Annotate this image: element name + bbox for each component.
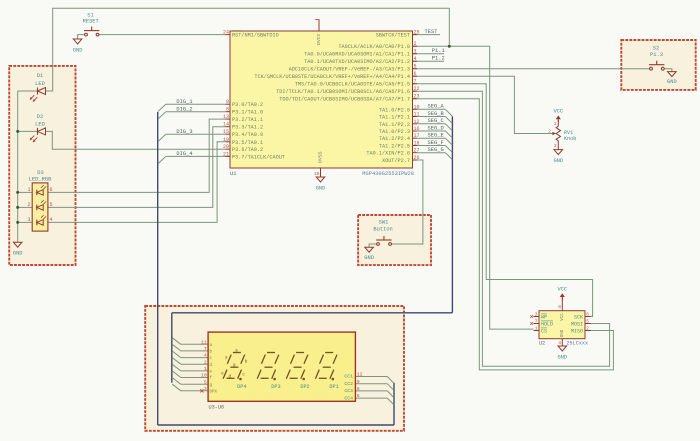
digit DP4: [223, 353, 246, 390]
svg-text:VCC: VCC: [557, 287, 567, 293]
bus display bottom: [158, 424, 394, 426]
pin 6 TCK/SMCLK/UCB0STE/UCA0CLK/VREF+/VeREF+/A4/CA4/P1.4: [254, 71, 417, 80]
pin 4 c display: [204, 353, 213, 362]
svg-text:P3.2/TA1.1: P3.2/TA1.1: [232, 117, 263, 123]
pin 9 CC2 display: [344, 379, 359, 387]
led D3 LED_RGB: [27, 170, 52, 231]
wire RGB pin2: [18, 206, 33, 208]
LED module box: [9, 66, 75, 265]
pin 26 XOUT/P2.7: [382, 155, 420, 164]
svg-text:VCC: VCC: [553, 108, 563, 114]
svg-text:P3.3/TA1.2: P3.3/TA1.2: [232, 125, 263, 131]
svg-text:6: 6: [586, 312, 589, 318]
digit DP1: [315, 353, 338, 390]
svg-text:9: 9: [226, 99, 229, 105]
svg-text:1: 1: [535, 326, 538, 332]
svg-text:SEG_A: SEG_A: [428, 104, 445, 110]
label 25LCxxx: [566, 341, 588, 347]
svg-text:MISO: MISO: [571, 328, 583, 334]
junction rail: [16, 191, 19, 194]
svg-text:25LCxxx: 25LCxxx: [566, 341, 588, 347]
svg-text:TMS/TA0.0/UCB0CLK/UCA0STE/A5/C: TMS/TA0.0/UCB0CLK/UCA0STE/A5/CA5/P1.5: [295, 82, 410, 88]
svg-text:28: 28: [314, 171, 320, 177]
wire D2 anode to pin20: [46, 131, 226, 149]
svg-text:9: 9: [357, 379, 360, 385]
pin 20 P3.6/TA0.2: [223, 144, 263, 153]
svg-text:DP2: DP2: [300, 384, 309, 390]
svg-text:TEST: TEST: [425, 29, 439, 35]
svg-text:SEG_C: SEG_C: [428, 118, 444, 124]
svg-text:LED_RGB: LED_RGB: [29, 176, 52, 182]
net SEG_G: [417, 147, 452, 159]
svg-text:S1: S1: [87, 13, 93, 19]
pin 16 TA1.0/P2.3: [379, 126, 420, 135]
wire rail LED module: [17, 91, 19, 242]
svg-text:TA1.1/P2.1: TA1.1/P2.1: [379, 115, 410, 121]
junction P1.0: [448, 45, 451, 48]
svg-text:TA0CLK/ACLK/A0/CA0/P1.0: TA0CLK/ACLK/A0/CA0/P1.0: [338, 44, 410, 50]
wire D2 cathode: [18, 130, 38, 132]
pin 13 P3.2/TA1.1: [223, 114, 263, 123]
svg-text:XOUT/P2.7: XOUT/P2.7: [382, 158, 410, 164]
svg-text:6: 6: [357, 393, 360, 399]
ground RV1: [553, 150, 563, 165]
wire P1.4 to RV1 wiper: [413, 76, 553, 133]
S2 module box: [621, 40, 695, 90]
pin 10 TA1.0/P2.0: [379, 104, 420, 113]
SW1 module box: [358, 215, 431, 265]
wire RGB pin3: [18, 221, 33, 223]
svg-text:CC2: CC2: [344, 381, 353, 387]
svg-text:10: 10: [414, 104, 420, 110]
svg-text:S2: S2: [653, 46, 659, 52]
svg-text:TA1.2/P2.5: TA1.2/P2.5: [379, 144, 410, 150]
svg-text:TA0.0/UCA0RXD/UCA0SOMI/A1/CA1/: TA0.0/UCA0RXD/UCA0SOMI/A1/CA1/P1.1: [304, 52, 410, 58]
svg-text:SW1: SW1: [379, 220, 389, 226]
svg-text:TCK/SMCLK/UCB0STE/UCA0CLK/VREF: TCK/SMCLK/UCB0STE/UCA0CLK/VREF+/VeREF+/A…: [254, 74, 410, 80]
pin 8 CC3 display: [344, 386, 359, 394]
wire P1.0 pin2: [413, 46, 534, 329]
ground SW1: [364, 247, 374, 261]
wire P1.1 label: [413, 53, 445, 55]
digit1 segment letters: [221, 349, 248, 379]
pin 7 HOLD: [530, 319, 553, 328]
svg-text:SBWTCK/TEST: SBWTCK/TEST: [376, 33, 410, 39]
pin 9 P3.0/TA0.2: [226, 99, 264, 108]
wire RGB pin6 to pin13: [48, 119, 226, 192]
pin 12 CC1 display: [344, 372, 362, 380]
svg-text:1: 1: [554, 121, 557, 127]
svg-text:RST/NMI/SBWTDIO: RST/NMI/SBWTDIO: [232, 33, 279, 39]
svg-text:27: 27: [414, 148, 420, 154]
svg-text:DIG_4: DIG_4: [176, 151, 192, 157]
svg-text:3: 3: [204, 386, 207, 392]
pin 25 SBWTCK/TEST: [376, 30, 420, 39]
wire U2 to GND: [561, 339, 563, 346]
svg-text:GND: GND: [316, 186, 326, 192]
wire RGB pin5 to pin14: [48, 127, 226, 208]
svg-text:TA1.1/P2.2: TA1.1/P2.2: [379, 122, 410, 128]
svg-text:CC4: CC4: [344, 395, 353, 401]
svg-text:SEG_D: SEG_D: [428, 125, 444, 131]
pin 15 P3.4/TA0.0: [223, 129, 263, 138]
net DIG_2: [158, 106, 225, 118]
svg-text:10: 10: [201, 373, 207, 379]
svg-text:1: 1: [204, 366, 207, 372]
svg-text:DP3: DP3: [271, 384, 280, 390]
pin DVSS bottom: [314, 151, 323, 177]
svg-text:22: 22: [414, 86, 420, 92]
pin 3 DPX display: [200, 386, 217, 395]
pin 14 P3.3/TA1.2: [223, 122, 263, 131]
svg-text:GND: GND: [364, 255, 374, 261]
pin 23 TDO/TDI/CAOUT/UCB0SIMO/UCB0SDA/A7/CA7/P1.7: [279, 94, 419, 103]
pin 21 P3.7/TA1CLK/CAOUT: [223, 151, 285, 160]
pin 18 TA1.2/P2.5: [379, 141, 420, 150]
switch S2 P1.3: [649, 46, 664, 71]
svg-text:LED: LED: [35, 81, 45, 87]
svg-text:P3.7/TA1CLK/CAOUT: P3.7/TA1CLK/CAOUT: [232, 154, 285, 160]
svg-text:21: 21: [223, 151, 229, 157]
wire S1 to GND: [78, 35, 85, 39]
svg-text:D3: D3: [37, 170, 43, 176]
svg-text:24: 24: [223, 30, 229, 36]
svg-text:TA1.0/P2.0: TA1.0/P2.0: [379, 107, 410, 113]
svg-text:12: 12: [357, 372, 363, 378]
svg-text:2: 2: [27, 202, 30, 208]
svg-text:8: 8: [558, 304, 561, 310]
label U3-U6: [209, 404, 225, 410]
svg-text:GND: GND: [557, 354, 567, 360]
svg-text:11: 11: [201, 339, 207, 345]
pin 6 SCK: [574, 312, 591, 321]
svg-text:6: 6: [414, 71, 417, 77]
svg-text:SEG_B: SEG_B: [428, 111, 445, 117]
digit DP2: [286, 353, 309, 390]
svg-text:1: 1: [27, 187, 30, 193]
svg-text:CC3: CC3: [344, 388, 353, 394]
wire RGB pin4 to pin19: [48, 142, 226, 223]
svg-text:D2: D2: [37, 114, 43, 120]
svg-text:DP4: DP4: [237, 384, 246, 390]
led D1: [30, 73, 46, 101]
svg-text:6: 6: [50, 187, 53, 193]
label MSP430G2553IPW28: [362, 171, 414, 177]
svg-text:5: 5: [586, 319, 589, 325]
junction rail: [16, 130, 19, 133]
wire D1 top loop to P1.0 junction: [46, 8, 450, 91]
svg-text:3: 3: [554, 143, 557, 149]
svg-text:3: 3: [414, 49, 417, 55]
pin 7 TMS/TA0.0/UCB0CLK/UCA0STE/A5/CA5/P1.5: [295, 79, 417, 88]
pin 1 CS: [534, 326, 548, 335]
svg-text:DP1: DP1: [329, 384, 338, 390]
net P1.2: [432, 56, 445, 62]
led D2: [30, 114, 46, 142]
svg-text:4: 4: [204, 353, 207, 359]
pin 6 CC4 display: [344, 393, 359, 401]
svg-text:4: 4: [558, 340, 561, 346]
svg-text:4: 4: [414, 56, 417, 62]
svg-text:P3.1/TA1.0: P3.1/TA1.0: [232, 110, 263, 116]
svg-text:GND: GND: [561, 329, 565, 337]
svg-text:17: 17: [414, 133, 420, 139]
pin 11 TA1.1/P2.1: [379, 112, 420, 121]
svg-text:TA1.0/P2.3: TA1.0/P2.3: [379, 129, 410, 135]
pin 27 TA0.1/XIN/P2.6: [366, 148, 419, 157]
svg-text:P3.4/TA0.0: P3.4/TA0.0: [232, 132, 263, 138]
wire SW1 to GND: [369, 244, 377, 247]
pin 5 ADC10CLK/CAOUT/VREF-/VeREF-/A3/CA3/P1.3: [289, 64, 417, 73]
switch SW1 Button: [373, 220, 392, 246]
bus display right: [393, 383, 395, 425]
svg-text:5: 5: [50, 202, 53, 208]
svg-text:DPX: DPX: [210, 390, 218, 394]
svg-text:DIG_1: DIG_1: [176, 99, 192, 105]
pin 1 e display: [204, 366, 213, 375]
wire display CC bus entries: [355, 377, 393, 405]
mcu U1 MSP430G2553 body: [230, 31, 413, 168]
wire XOUT pin26 to SW1: [392, 160, 423, 244]
svg-text:SEG_G: SEG_G: [428, 147, 444, 153]
svg-text:P1.1: P1.1: [432, 48, 445, 54]
svg-text:U3-U6: U3-U6: [209, 404, 225, 410]
svg-text:7: 7: [414, 79, 417, 85]
bus display top: [172, 312, 453, 314]
display module box: [145, 306, 404, 431]
svg-text:LED: LED: [35, 122, 45, 128]
svg-text:2: 2: [586, 326, 589, 332]
net DIG_3: [158, 129, 225, 141]
wire VCC to U2: [561, 298, 563, 311]
svg-text:16: 16: [414, 126, 420, 132]
svg-text:23: 23: [414, 94, 420, 100]
wire TEST label: [413, 34, 441, 36]
pin 4 GND U2: [558, 340, 561, 346]
svg-text:12: 12: [414, 119, 420, 125]
junction rail: [16, 221, 19, 224]
svg-text:2: 2: [414, 41, 417, 47]
pin 8 VCC U2: [558, 304, 561, 310]
bus SEG vertical: [451, 116, 453, 312]
ground LED module: [13, 242, 23, 257]
ic U2 25LCxxx body: [539, 311, 585, 339]
svg-text:GND: GND: [553, 158, 563, 164]
svg-text:MOSI: MOSI: [571, 321, 583, 327]
ground U1: [316, 177, 326, 192]
svg-text:5: 5: [414, 64, 417, 70]
svg-text:P1.2: P1.2: [432, 56, 445, 62]
svg-text:8: 8: [357, 386, 360, 392]
wire RV1 to GND: [557, 144, 559, 150]
net SEG_E: [417, 133, 452, 145]
svg-text:U1: U1: [230, 171, 236, 177]
wire P1.3 to S2: [413, 68, 650, 70]
svg-text:7: 7: [535, 319, 538, 325]
pin 10 f display: [201, 373, 212, 382]
wire S1 to RST pin24: [99, 34, 226, 36]
svg-text:2: 2: [548, 128, 551, 134]
svg-text:P3.5/TA0.1: P3.5/TA0.1: [232, 140, 263, 146]
svg-text:CC1: CC1: [344, 374, 353, 380]
wire RGB pin1: [18, 191, 33, 193]
wire P1.2 label: [413, 60, 445, 62]
potentiometer RV1: [548, 121, 576, 149]
net P1.1: [432, 48, 445, 54]
svg-text:DVCC: DVCC: [316, 33, 322, 45]
svg-text:SEG_F: SEG_F: [428, 140, 444, 146]
svg-text:7: 7: [204, 346, 207, 352]
svg-text:GND: GND: [667, 79, 677, 85]
pin 17 TA1.2/P2.4: [379, 133, 420, 142]
svg-text:MSP430G2553IPW28: MSP430G2553IPW28: [362, 171, 414, 177]
svg-text:25: 25: [414, 30, 420, 36]
svg-text:TA0.1/XIN/P2.6: TA0.1/XIN/P2.6: [366, 151, 410, 157]
ground S2: [667, 72, 677, 86]
wire S2 to GND: [664, 69, 672, 72]
svg-text:Button: Button: [373, 227, 392, 233]
bus DIG vertical: [157, 112, 159, 425]
pin 19 P3.5/TA0.1: [223, 137, 263, 146]
pin 7 b display: [204, 346, 213, 355]
wire P1.7 to MISO: [413, 99, 614, 370]
pin 24 RST/NMI/SBWTDIO: [223, 30, 279, 39]
net DIG_1: [158, 99, 225, 111]
net SEG_C: [417, 118, 452, 130]
svg-text:14: 14: [223, 122, 229, 128]
svg-text:4: 4: [50, 217, 53, 223]
svg-text:P3.6/TA0.2: P3.6/TA0.2: [232, 147, 263, 153]
net SEG_D: [417, 125, 452, 137]
junction rail: [16, 206, 19, 209]
pin 12 TA1.1/P2.2: [379, 119, 420, 128]
pin 2 TA0CLK/ACLK/A0/CA0/P1.0: [338, 41, 417, 50]
pin 11 a display: [201, 339, 212, 348]
wire VCC to RV1: [557, 120, 559, 126]
ground S1: [73, 39, 83, 54]
digit DP3: [257, 353, 280, 390]
svg-text:CS: CS: [541, 328, 547, 334]
svg-text:GND: GND: [73, 48, 83, 54]
wire display left pins bus entries: [172, 338, 208, 391]
svg-text:ADC10CLK/CAOUT/VREF-/VeREF-/A3: ADC10CLK/CAOUT/VREF-/VeREF-/A3/CA3/P1.3: [289, 67, 410, 73]
net SEG_A: [417, 104, 452, 116]
svg-text:TA0.1/UCA0TXD/UCA0SIMO/A2/CA2/: TA0.1/UCA0TXD/UCA0SIMO/A2/CA2/P1.2: [304, 59, 410, 65]
svg-text:TA1.2/P2.4: TA1.2/P2.4: [379, 136, 410, 142]
power VCC RV1: [553, 108, 563, 122]
wire P1.6 to MOSI: [413, 91, 610, 366]
svg-text:2: 2: [204, 359, 207, 365]
svg-text:RESET: RESET: [83, 19, 100, 25]
pin 2 d display: [204, 359, 213, 368]
svg-text:8: 8: [226, 107, 229, 113]
display U3-U6 body: [208, 332, 355, 401]
svg-text:TDI/TCLK/TA0.1/UCB0SOMI/UCB0SC: TDI/TCLK/TA0.1/UCB0SOMI/UCB0SCL/A6/CA6/P…: [276, 89, 410, 95]
wire P1.5 to SCK: [413, 84, 593, 317]
svg-text:D1: D1: [37, 73, 43, 79]
svg-text:19: 19: [223, 137, 229, 143]
svg-text:DIG_2: DIG_2: [176, 106, 192, 112]
svg-text:TDO/TDI/CAOUT/UCB0SIMO/UCB0SDA: TDO/TDI/CAOUT/UCB0SIMO/UCB0SDA/A7/CA7/P1…: [279, 97, 410, 103]
svg-text:VCC: VCC: [561, 313, 565, 321]
pin DVCC top: [315, 20, 322, 45]
svg-text:HOLD: HOLD: [541, 321, 553, 327]
ground U2: [557, 346, 567, 360]
wire D1 cathode to rail: [18, 90, 38, 92]
label U1: [230, 171, 236, 177]
pin 8 P3.1/TA1.0: [226, 107, 264, 116]
svg-text:U2: U2: [539, 341, 545, 347]
svg-text:DVSS: DVSS: [317, 151, 323, 163]
pin 3 WP: [530, 312, 547, 321]
svg-text:SEG_E: SEG_E: [428, 133, 444, 139]
pin 4 TA0.1/UCA0TXD/UCA0SIMO/A2/CA2/P1.2: [304, 56, 417, 65]
switch S1: [83, 13, 100, 36]
svg-text:WP: WP: [541, 314, 547, 320]
svg-text:20: 20: [223, 144, 229, 150]
pin 5 g display: [204, 379, 213, 388]
svg-text:11: 11: [414, 112, 420, 118]
svg-text:18: 18: [414, 141, 420, 147]
svg-text:DIG_3: DIG_3: [176, 129, 192, 135]
net DIG_4: [158, 151, 225, 163]
svg-text:3: 3: [535, 312, 538, 318]
svg-text:15: 15: [223, 129, 229, 135]
svg-text:5: 5: [204, 379, 207, 385]
bus display left: [171, 313, 173, 383]
svg-text:26: 26: [414, 155, 420, 161]
svg-text:13: 13: [223, 114, 229, 120]
net SEG_F: [417, 140, 452, 152]
pin 2 MISO: [571, 326, 591, 335]
pin 22 TDI/TCLK/TA0.1/UCB0SOMI/UCB0SCL/A6/CA6/P1.6: [276, 86, 419, 95]
svg-text:P1.3: P1.3: [650, 52, 663, 58]
pin 3 TA0.0/UCA0RXD/UCA0SOMI/A1/CA1/P1.1: [304, 49, 417, 58]
svg-text:3: 3: [27, 217, 30, 223]
net SEG_B: [417, 111, 452, 123]
svg-text:Knob: Knob: [564, 136, 576, 142]
svg-text:P3.0/TA0.2: P3.0/TA0.2: [232, 102, 263, 108]
svg-text:SCK: SCK: [574, 314, 583, 320]
pin 5 MOSI: [571, 319, 591, 328]
label U2: [539, 341, 545, 347]
net TEST: [425, 29, 439, 35]
svg-text:GND: GND: [13, 251, 23, 257]
power VCC U2: [557, 287, 567, 300]
